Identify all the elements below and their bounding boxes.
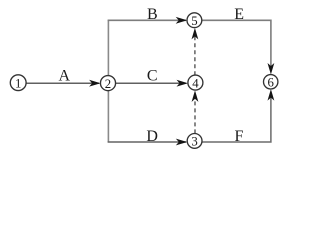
- arrowhead into node 2: [89, 80, 101, 87]
- wire E: node 5 right then down to node 6: [202, 20, 271, 66]
- svg-text:1: 1: [15, 76, 21, 90]
- dashed dummy wire: node 3 to node 4: [194, 98, 196, 134]
- svg-text:E: E: [234, 6, 244, 23]
- node 3: [187, 134, 202, 149]
- svg-text:3: 3: [191, 135, 197, 149]
- node 1: [10, 75, 26, 91]
- svg-text:6: 6: [267, 76, 274, 90]
- arrowhead into node 4: [177, 80, 189, 87]
- svg-text:C: C: [147, 67, 158, 84]
- svg-text:5: 5: [191, 14, 197, 28]
- wire D: bottom horizontal to node 3: [108, 141, 186, 143]
- wire B: top horizontal to node 5: [108, 19, 186, 21]
- node 2: [100, 76, 115, 91]
- svg-text:A: A: [59, 68, 71, 85]
- arrowhead into node 4 bottom: [192, 90, 199, 102]
- svg-text:D: D: [146, 128, 158, 145]
- svg-text:F: F: [235, 128, 244, 145]
- svg-text:B: B: [147, 6, 158, 23]
- node 4: [188, 75, 203, 90]
- wire: vertical down from node 2: [107, 91, 109, 142]
- node 6: [264, 75, 278, 90]
- arrowhead into node 6 top: [268, 63, 275, 75]
- wire: vertical up from node 2: [107, 20, 109, 75]
- arrowhead into node 5: [176, 17, 188, 24]
- arrowhead into node 5 bottom: [192, 28, 199, 40]
- node 5: [187, 13, 202, 28]
- svg-text:4: 4: [192, 76, 199, 90]
- dashed dummy wire: node 4 to node 5: [194, 37, 196, 76]
- arrowhead into node 6 bottom: [268, 89, 275, 101]
- wire A: node 1 to node 2: [26, 82, 99, 84]
- wire F: node 3 right then up to node 6: [202, 97, 271, 142]
- arrowhead into node 3: [176, 139, 188, 146]
- wire C: node 2 to node 4: [116, 82, 186, 84]
- svg-text:2: 2: [105, 77, 111, 91]
